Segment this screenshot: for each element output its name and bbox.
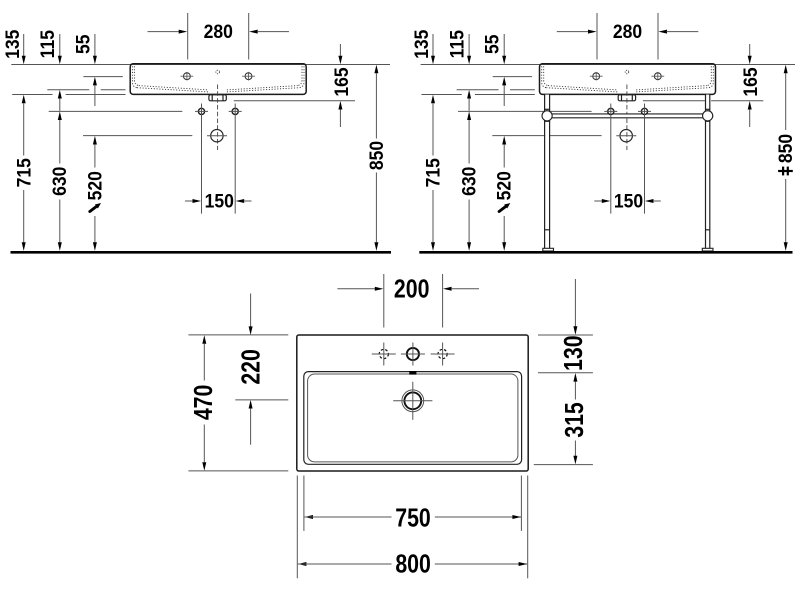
55 arrow up (left view) bbox=[93, 77, 97, 86]
130 top level line bbox=[538, 334, 593, 336]
drain centre line (right view (console)) bbox=[626, 85, 628, 151]
svg-text:630: 630 bbox=[458, 167, 480, 196]
svg-text:520: 520 bbox=[83, 171, 105, 200]
fixing hole left (right view (console)) bbox=[608, 108, 614, 114]
extension arrow 115 down (left view) bbox=[59, 34, 61, 56]
adjustable-height bent arrow symbol (left view) bbox=[90, 206, 97, 211]
basin interior dotted floor lines (left view) bbox=[137, 88, 208, 92]
svg-text:135: 135 bbox=[1, 30, 23, 59]
basin interior dotted left wall (left view) bbox=[132, 66, 137, 87]
dimension 280 arrows and label (left view) bbox=[148, 31, 180, 33]
plan view overflow slot bbox=[409, 371, 416, 375]
dimension 520 (right view (console)) bbox=[502, 136, 506, 145]
adjustable-height bent arrow symbol (right view (console)) bbox=[499, 206, 506, 211]
dimension 520 (left view) bbox=[93, 136, 97, 145]
dimension 280 right extension line (right view (console)) bbox=[657, 13, 659, 60]
dimension 715 (right view (console)) bbox=[431, 95, 435, 104]
dimension 280 left extension line (right view (console)) bbox=[596, 13, 598, 60]
plan view basin inner rim (inner line) bbox=[308, 374, 518, 462]
55 arrow up (right view (console)) bbox=[502, 77, 506, 86]
drain centre line (left view) bbox=[217, 85, 219, 151]
svg-text:150: 150 bbox=[205, 190, 234, 212]
dimension 470 bottom extension line bbox=[188, 470, 288, 472]
dimension 165 bottom arrow (left view) bbox=[338, 101, 342, 110]
115 arrow up (left view) bbox=[58, 90, 62, 99]
overflow hole (left view) bbox=[216, 70, 220, 74]
basin interior dotted left wall (right view (console)) bbox=[542, 66, 547, 87]
floor line (right view (console)) bbox=[419, 251, 792, 254]
svg-text:220: 220 bbox=[236, 349, 266, 385]
svg-text:850: 850 bbox=[774, 134, 796, 163]
siphon drain circle (left view) bbox=[211, 130, 223, 142]
extension arrow 115 down (right view (console)) bbox=[468, 34, 470, 56]
basin interior dotted right wall (left view) bbox=[299, 66, 304, 87]
console right leg bbox=[706, 95, 709, 249]
315 bottom level line bbox=[534, 464, 593, 466]
svg-text:135: 135 bbox=[410, 30, 432, 59]
drain fitting (left view) bbox=[209, 95, 226, 101]
165 level line (right view (console)) bbox=[643, 100, 705, 102]
svg-text:165: 165 bbox=[739, 67, 761, 96]
dimension 220 bottom arrow bbox=[249, 400, 253, 409]
fixing hole right (right view (console)) bbox=[641, 108, 647, 114]
extension arrow 135 down (left view) bbox=[23, 34, 25, 56]
tap hole left (right view (console)) bbox=[593, 73, 600, 80]
plan drain inner circle bbox=[404, 392, 421, 409]
115 arrow up (right view (console)) bbox=[467, 90, 471, 99]
plan tap hole centre bbox=[407, 348, 419, 360]
adjustable symbol for 850 (double bar) bbox=[778, 170, 793, 172]
dimension 315 bbox=[573, 373, 577, 382]
svg-text:520: 520 bbox=[493, 171, 515, 200]
dimension 200 extension lines bbox=[383, 274, 385, 328]
plan drain crosshair bbox=[393, 400, 432, 402]
plan drain outer circle bbox=[402, 390, 424, 412]
svg-text:115: 115 bbox=[445, 30, 467, 58]
dimension 470 top extension line bbox=[188, 334, 288, 336]
console rail ball joint left bbox=[542, 111, 552, 121]
dimension 165 top arrow (right view (console)) bbox=[749, 44, 751, 56]
floor line (left view) bbox=[11, 251, 392, 254]
extension arrow 55 down (right view (console)) bbox=[503, 34, 505, 56]
dimension 630 (right view (console)) bbox=[467, 111, 471, 120]
svg-text:280: 280 bbox=[204, 20, 233, 42]
dimension 165 bottom arrow (right view (console)) bbox=[748, 101, 752, 110]
dimension 630 (left view) bbox=[58, 111, 62, 120]
basin interior dotted floor lines (right view (console)) bbox=[546, 88, 617, 92]
dimension 800 arrows and label bbox=[298, 562, 307, 566]
dimension 850 (left view) bbox=[374, 65, 378, 74]
svg-text:150: 150 bbox=[614, 190, 643, 212]
fixing holes level line 630 (right view (console)) bbox=[458, 110, 592, 112]
svg-text:55: 55 bbox=[72, 35, 94, 55]
console left foot bbox=[543, 248, 554, 251]
washbasin body outline (right view (console)) bbox=[540, 64, 716, 95]
svg-text:315: 315 bbox=[560, 402, 590, 438]
dimension 750 arrows and label bbox=[304, 515, 313, 519]
dimension 150 arrows and label (left view) bbox=[185, 200, 193, 202]
tap hole left (left view) bbox=[184, 73, 191, 80]
console right foot bbox=[702, 248, 713, 251]
siphon drain circle (right view (console)) bbox=[620, 130, 632, 142]
165 level line (left view) bbox=[234, 100, 355, 102]
dimension 850 (right view (console)) bbox=[784, 65, 788, 74]
dimension 150 extension lines (right view (console)) bbox=[610, 120, 612, 214]
top reference line 850 level (left view) bbox=[11, 64, 390, 66]
dimension 220 top arrow bbox=[250, 294, 252, 327]
console leg lower collar ticks bbox=[545, 120, 550, 122]
dimension 150 arrows and label (right view (console)) bbox=[594, 200, 602, 202]
basin interior dotted right wall (right view (console)) bbox=[709, 66, 714, 87]
svg-text:715: 715 bbox=[12, 158, 34, 187]
drain level line 520 (right view (console)) bbox=[492, 135, 601, 137]
fixing holes level line 630 (left view) bbox=[49, 110, 183, 112]
console leg collar ticks bbox=[545, 229, 550, 231]
svg-text:55: 55 bbox=[481, 35, 503, 55]
svg-text:130: 130 bbox=[559, 335, 589, 371]
tap hole right (left view) bbox=[245, 73, 252, 80]
washbasin body outline (left view) bbox=[130, 64, 306, 95]
svg-text:715: 715 bbox=[422, 158, 444, 187]
plan view basin inner rim (outer line) bbox=[304, 372, 522, 465]
drain fitting (right view (console)) bbox=[618, 95, 635, 101]
220 level line at drain centre bbox=[235, 399, 288, 401]
console left leg bbox=[545, 95, 549, 249]
115 level line (left view) bbox=[47, 89, 89, 91]
55 level line (right view (console)) bbox=[493, 76, 532, 78]
top reference line 850 level (right view (console)) bbox=[421, 64, 795, 66]
dimension 750 extension lines bbox=[303, 476, 305, 531]
svg-text:470: 470 bbox=[189, 385, 219, 421]
fixing hole left (left view) bbox=[198, 108, 204, 114]
svg-text:115: 115 bbox=[36, 30, 58, 58]
dimension 280 left extension line (left view) bbox=[187, 13, 189, 60]
plan tap hole left (dashed, optional) bbox=[379, 349, 388, 358]
55 level line (left view) bbox=[83, 76, 122, 78]
console towel rail bbox=[542, 114, 713, 118]
drain level line 520 (left view) bbox=[83, 135, 192, 137]
svg-text:200: 200 bbox=[394, 275, 430, 305]
dimension 470 bbox=[202, 335, 206, 344]
overflow hole (right view (console)) bbox=[625, 70, 629, 74]
svg-text:750: 750 bbox=[395, 503, 431, 533]
svg-text:630: 630 bbox=[48, 167, 70, 196]
dimension 715 (left view) bbox=[22, 95, 26, 104]
dimension 800 extension lines bbox=[296, 476, 298, 579]
dimension 280 arrows and label (right view (console)) bbox=[557, 31, 589, 33]
135 level line (right view (console)) bbox=[422, 94, 462, 96]
console rail ball joint right bbox=[703, 111, 713, 121]
svg-text:800: 800 bbox=[395, 549, 431, 579]
extension arrow 55 down (left view) bbox=[94, 34, 96, 56]
plan view outer rim rectangle bbox=[297, 335, 528, 471]
extension arrow 135 down (right view (console)) bbox=[432, 34, 434, 56]
fixing hole right (left view) bbox=[232, 108, 238, 114]
dimension 130 top arrow bbox=[574, 279, 576, 327]
plan tap hole right (dashed, optional) bbox=[438, 349, 447, 358]
130 bottom level line bbox=[538, 372, 593, 374]
tap hole right (right view (console)) bbox=[654, 73, 661, 80]
dimension 200 arrows and label bbox=[337, 288, 375, 290]
svg-text:280: 280 bbox=[613, 20, 642, 42]
135 level line (left view) bbox=[12, 94, 52, 96]
dimension 280 right extension line (left view) bbox=[248, 13, 250, 60]
115 level line (right view (console)) bbox=[457, 89, 499, 91]
dimension 165 top arrow (left view) bbox=[339, 44, 341, 56]
svg-text:850: 850 bbox=[365, 141, 387, 170]
svg-text:165: 165 bbox=[330, 67, 352, 96]
dimension 150 extension lines (left view) bbox=[201, 120, 203, 214]
